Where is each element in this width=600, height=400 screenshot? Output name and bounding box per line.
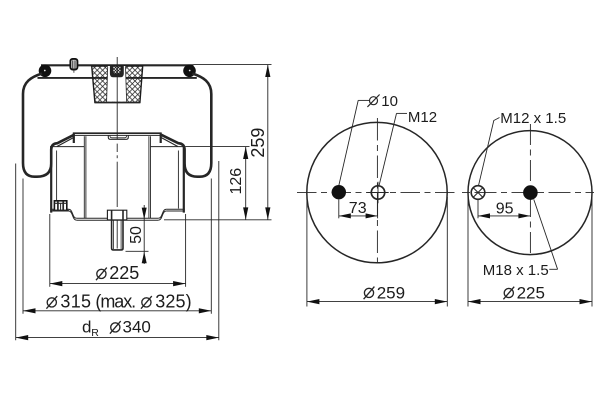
- dimension diameter 259: [307, 197, 447, 307]
- piston bowl inner bottom lines: [52, 146, 84, 148]
- vent fitting on flange left: [52, 201, 68, 211]
- piston plate centre recess: [108, 135, 128, 139]
- flange bottom plate: [77, 217, 109, 219]
- bottom stud M18: [112, 210, 123, 250]
- bellows outline right half: [161, 74, 211, 177]
- piston plate edge clamps: [73, 133, 75, 143]
- svg-text:340: 340: [123, 318, 151, 337]
- dimension dR diameter 340: [16, 161, 219, 340]
- extension line from top plate to 259 dimension: [194, 64, 272, 66]
- dimension 50 (stud length): [126, 205, 149, 264]
- piston outer wall left: [50, 146, 52, 213]
- vertical centerline: [529, 124, 531, 256]
- dimension 126: [186, 147, 250, 220]
- flange outer ring right: [166, 208, 184, 210]
- d10 hole (filled): [332, 185, 346, 199]
- svg-text:(max.: (max.: [95, 292, 136, 312]
- dimension diameter 315 (max 325): [23, 179, 211, 314]
- svg-text:10: 10: [381, 93, 398, 110]
- svg-text:126: 126: [228, 168, 245, 195]
- svg-text:315: 315: [60, 292, 91, 312]
- rubber bumper (cross-hatched): [92, 66, 143, 103]
- label M12 with leader: [379, 109, 437, 186]
- dimension diameter 225 (left view): [50, 214, 186, 287]
- horizontal centerline: [297, 192, 458, 194]
- svg-text:R: R: [91, 327, 99, 339]
- piston inner tube left: [83, 136, 85, 218]
- stud boss on bottom plate: [107, 210, 126, 220]
- piston inner tube right: [148, 136, 150, 218]
- centerline (vertical axis of left view): [116, 57, 118, 249]
- M12 threaded hole: [367, 182, 388, 203]
- M18 hole (filled center): [523, 185, 538, 200]
- svg-text:95: 95: [496, 201, 514, 218]
- horizontal centerline: [462, 192, 594, 194]
- svg-text:259: 259: [377, 283, 405, 302]
- piston skirt left: [57, 137, 75, 147]
- piston skirt right: [160, 137, 178, 147]
- svg-text:d: d: [82, 318, 91, 337]
- top plate: [41, 64, 194, 66]
- piston outer wall right: [183, 146, 185, 213]
- right bead (rolled bellows edge): [183, 65, 196, 78]
- bumper central slot (white cut-out): [107, 66, 127, 102]
- dimension 259 (right of left view): [164, 65, 272, 220]
- bellows top edge under plate: [38, 77, 197, 79]
- label M18 x 1.5 with leader: [483, 200, 558, 280]
- flange S-step right: [158, 209, 166, 218]
- svg-text:50: 50: [128, 226, 145, 244]
- flange S-step left: [69, 209, 77, 218]
- bumper recess collar: [110, 66, 124, 78]
- dimension 95: [478, 200, 530, 218]
- M12x1.5 hole with cross: [471, 186, 485, 200]
- flange outer ring left: [50, 208, 68, 210]
- label d10 with leader: [339, 93, 398, 185]
- svg-text:M12: M12: [408, 109, 437, 126]
- dimension diameter 225 (right view): [468, 197, 592, 307]
- stud on top plate (blind rivet at d10 position): [70, 59, 77, 73]
- bottom view circle: [468, 131, 592, 255]
- svg-text:325): 325): [155, 292, 191, 312]
- svg-text:73: 73: [349, 200, 367, 217]
- svg-text:225: 225: [517, 283, 545, 302]
- label M12 x 1.5 with leader: [479, 110, 567, 185]
- M12 stud inside bumper recess: [112, 66, 121, 74]
- top view circle: [307, 122, 447, 262]
- piston top plate: [73, 132, 162, 134]
- svg-text:M18 x 1.5: M18 x 1.5: [483, 262, 549, 279]
- svg-text:M12 x 1.5: M12 x 1.5: [500, 110, 566, 127]
- bellows outline left half: [23, 74, 74, 177]
- left bead (rolled bellows edge): [39, 65, 52, 78]
- vertical centerline: [376, 118, 378, 268]
- dimension 73: [339, 196, 378, 218]
- svg-text:225: 225: [109, 263, 139, 283]
- svg-text:259: 259: [248, 128, 268, 158]
